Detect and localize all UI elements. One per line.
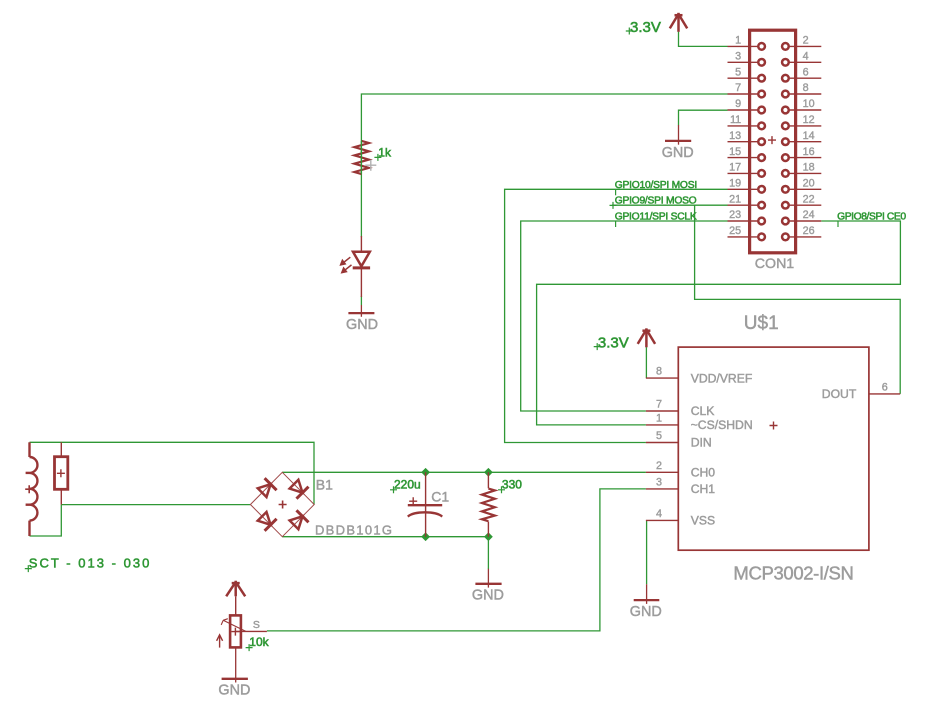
- LED D1: [341, 236, 371, 297]
- svg-text:3.3V: 3.3V: [630, 19, 661, 36]
- CON1 pin numbers right: [803, 35, 815, 238]
- svg-text:5: 5: [656, 430, 662, 442]
- svg-text:DBDB101G: DBDB101G: [315, 522, 392, 537]
- B1 origin cross: [279, 501, 287, 509]
- U$1 pin names: [691, 372, 857, 528]
- svg-text:10k: 10k: [249, 635, 269, 649]
- svg-text:25: 25: [729, 225, 741, 237]
- wire 3.3V to VDD/VREF: [645, 347, 647, 378]
- svg-text:220u: 220u: [394, 478, 421, 492]
- svg-text:GPIO9/SPI MOSO: GPIO9/SPI MOSO: [615, 196, 697, 207]
- supply symbol 3.3V (top): [670, 13, 687, 32]
- B1 diode bottom-left: [256, 510, 277, 531]
- svg-text:4: 4: [656, 508, 662, 520]
- CON1 pin stubs right: [789, 46, 822, 237]
- wire net GPIO9/SPI MOSO (pin21 to DOUT): [612, 204, 728, 206]
- svg-text:2: 2: [656, 460, 662, 472]
- wire transformer bottom loop: [30, 505, 62, 536]
- svg-text:3: 3: [735, 51, 741, 63]
- svg-text:U$1: U$1: [744, 313, 779, 334]
- potentiometer 10k: [217, 615, 270, 651]
- wire transformer mid node to bridge left corner: [61, 504, 250, 506]
- transformer SCT-013-030 coil: [26, 442, 38, 536]
- svg-text:C1: C1: [431, 489, 449, 505]
- IC U$1 MCP3002: [646, 313, 900, 583]
- wire pot wiper to CH1: [267, 489, 646, 631]
- wire VSS to GND: [646, 520, 648, 584]
- junction dot DC- at 330: [484, 532, 493, 541]
- svg-text:CH0: CH0: [691, 465, 716, 479]
- svg-text:6: 6: [882, 381, 888, 393]
- ground symbol GND (330 resistor): [472, 569, 504, 604]
- B1 diamond outline: [250, 472, 314, 536]
- svg-text:8: 8: [803, 82, 809, 94]
- svg-text:CH1: CH1: [691, 482, 716, 496]
- wire CON1 pin9 to GND: [679, 110, 728, 125]
- U$1 pin numbers: [656, 366, 662, 520]
- svg-text:~CS/SHDN: ~CS/SHDN: [691, 418, 753, 432]
- svg-text:GPIO11/SPI SCLK: GPIO11/SPI SCLK: [615, 212, 697, 223]
- pot adjust arrow: [217, 635, 223, 648]
- svg-text:8: 8: [656, 366, 662, 378]
- svg-text:20: 20: [803, 178, 815, 190]
- svg-text:VDD/VREF: VDD/VREF: [691, 372, 753, 386]
- CON1 pin numbers left: [729, 35, 741, 238]
- svg-text:15: 15: [729, 146, 741, 158]
- svg-text:GND: GND: [630, 604, 662, 620]
- wire transformer top to bridge right corner: [30, 442, 315, 504]
- svg-text:CON1: CON1: [755, 256, 795, 272]
- svg-text:21: 21: [729, 193, 741, 205]
- LED emission arrows: [341, 257, 352, 272]
- U$1 origin cross: [770, 422, 778, 430]
- B1 diode bottom-right: [288, 510, 309, 531]
- svg-text:B1: B1: [316, 477, 333, 493]
- junction dot DC+ at C1: [421, 468, 430, 477]
- ground symbol GND (pot): [218, 647, 250, 698]
- svg-text:CLK: CLK: [691, 404, 715, 418]
- svg-text:13: 13: [729, 130, 741, 142]
- svg-text:GND: GND: [662, 145, 694, 161]
- U$1 pin stubs: [646, 378, 900, 520]
- resistor 1k zigzag: [354, 141, 369, 174]
- pot wiper: [223, 620, 246, 631]
- svg-text:4: 4: [803, 51, 809, 63]
- svg-text:26: 26: [803, 225, 815, 237]
- junction dot DC- at C1: [421, 532, 430, 541]
- CON1 box: [750, 30, 796, 253]
- svg-text:16: 16: [803, 146, 815, 158]
- wire through 1k resistor: [360, 141, 362, 174]
- CON1 pin pads right column: [782, 43, 789, 240]
- svg-text:7: 7: [656, 399, 662, 411]
- svg-text:DOUT: DOUT: [822, 387, 857, 401]
- svg-text:S: S: [253, 619, 260, 631]
- transformer secondary rect: [55, 442, 68, 504]
- wire DC+ rail bridge to CH0: [282, 471, 646, 473]
- svg-text:MCP3002-I/SN: MCP3002-I/SN: [733, 563, 854, 584]
- supply symbol arrow above pot: [226, 581, 245, 616]
- wire net GPIO11/SPI SCLK (pin23 to CLK): [521, 221, 728, 411]
- svg-text:DIN: DIN: [691, 436, 712, 450]
- wire CON1 pin7 to 1k resistor net: [361, 94, 727, 237]
- svg-text:5: 5: [735, 66, 741, 78]
- svg-text:24: 24: [803, 209, 815, 221]
- origin cross 1k: [365, 160, 376, 171]
- ground symbol GND (LED): [346, 305, 378, 333]
- wire DC- rail bridge to 330/GND: [282, 537, 488, 569]
- svg-text:GPIO8/SPI CE0: GPIO8/SPI CE0: [837, 212, 906, 223]
- svg-text:GND: GND: [472, 588, 504, 604]
- B1 diode top-left: [256, 478, 277, 499]
- svg-text:12: 12: [803, 114, 815, 126]
- svg-text:VSS: VSS: [691, 514, 715, 528]
- ground symbol GND (CON1 pin9): [662, 125, 694, 161]
- resistor 330: [482, 472, 522, 536]
- transformer origin cross: [25, 485, 33, 493]
- svg-text:GND: GND: [218, 683, 250, 699]
- svg-text:1: 1: [656, 412, 662, 424]
- bridge rectifier B1: [250, 472, 392, 537]
- CON1 pin stubs left: [728, 46, 759, 237]
- CON1 pin pads left column: [758, 43, 765, 240]
- wire net GPIO10/SPI MOSI (pin19 to DIN): [505, 189, 728, 442]
- svg-text:23: 23: [729, 209, 741, 221]
- svg-text:1: 1: [735, 35, 741, 47]
- svg-text:14: 14: [803, 130, 815, 142]
- svg-text:GPIO10/SPI MOSI: GPIO10/SPI MOSI: [615, 180, 698, 191]
- CON1 origin cross: [768, 136, 776, 144]
- svg-text:2: 2: [803, 35, 809, 47]
- C1 polarity plus: [409, 497, 417, 505]
- pot origin cross: [231, 628, 239, 636]
- svg-text:11: 11: [730, 114, 741, 126]
- svg-text:6: 6: [803, 66, 809, 78]
- capacitor C1: [390, 472, 449, 536]
- svg-text:19: 19: [729, 178, 741, 190]
- svg-text:18: 18: [803, 162, 815, 174]
- wire net GPIO8/SPI CE0 (pin24 to ~CS/SHDN): [537, 221, 901, 425]
- B1 diode top-right: [288, 478, 309, 499]
- svg-text:9: 9: [735, 98, 741, 110]
- header CON1: [728, 30, 822, 272]
- svg-text:3: 3: [656, 476, 662, 488]
- svg-text:10: 10: [803, 98, 815, 110]
- svg-text:7: 7: [735, 82, 741, 94]
- wire net 3.3V to CON1 pin1: [679, 32, 728, 47]
- svg-text:22: 22: [803, 193, 815, 205]
- supply symbol 3.3V (at VDD): [638, 328, 655, 347]
- ground symbol GND (MCP VSS): [630, 584, 662, 620]
- U$1 box: [678, 347, 869, 550]
- svg-text:3.3V: 3.3V: [598, 335, 629, 352]
- junction dot DC+ at 330: [484, 468, 493, 477]
- svg-text:GND: GND: [346, 317, 378, 333]
- svg-text:17: 17: [729, 162, 741, 174]
- wire LED cathode to GND short segment: [360, 296, 362, 305]
